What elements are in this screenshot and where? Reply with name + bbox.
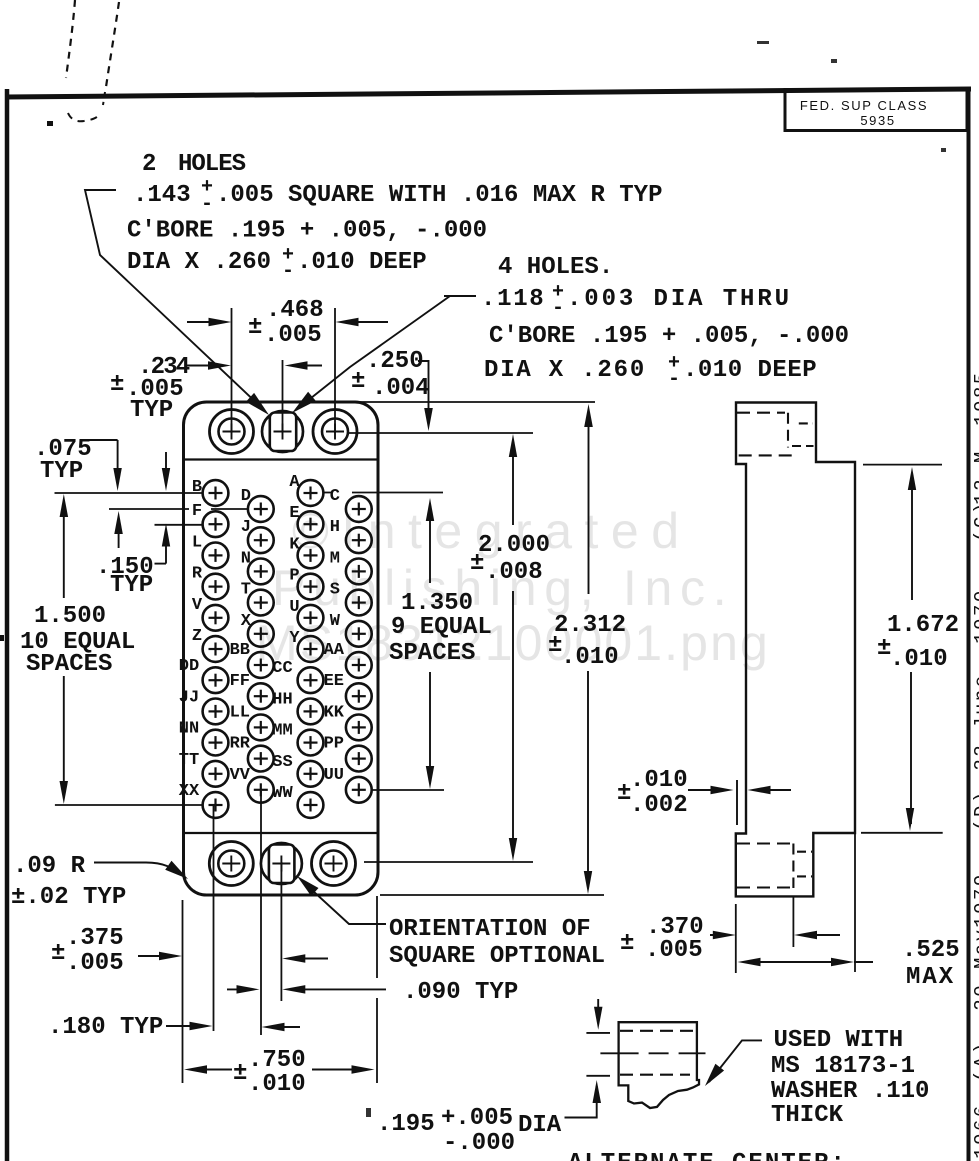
extension line row XX [55,804,203,806]
svg-text:SQUARE OPTIONAL: SQUARE OPTIONAL [389,943,605,970]
svg-text:.010: .010 [561,644,619,671]
svg-text:N: N [241,549,251,568]
svg-text:Y: Y [289,629,300,648]
front view top section line [184,458,378,460]
svg-text:.002: .002 [630,792,688,819]
svg-text:WASHER .110: WASHER .110 [771,1078,929,1105]
svg-text:CC: CC [272,659,292,678]
extension line from pin C row [352,492,443,494]
svg-text:DD: DD [179,657,199,676]
svg-text:+.005: +.005 [441,1105,513,1132]
svg-text:B: B [192,478,202,497]
top left mounting hole [210,410,254,454]
svg-text:TYP: TYP [40,458,83,485]
svg-text:.010 DEEP: .010 DEEP [683,357,817,384]
center line of jackscrew below side view [792,896,794,947]
svg-text:TYP: TYP [130,397,173,424]
svg-text:±.02 TYP: ±.02 TYP [11,884,126,911]
pin column 4 (C H M S W AA EE KK PP UU) [346,496,372,522]
extension line over left top hole [231,308,233,433]
bottom center square hole [261,843,302,884]
svg-text:R: R [192,565,203,584]
svg-text:±: ± [620,930,634,957]
svg-text:.375: .375 [66,925,124,952]
svg-text:(D): (D) [971,789,979,831]
svg-text:FED. SUP CLASS: FED. SUP CLASS [800,98,928,113]
detail view hidden lines [620,1030,696,1032]
svg-text:AA: AA [324,641,345,660]
svg-text:MS 18173-1: MS 18173-1 [771,1053,915,1080]
svg-text:X: X [241,612,252,631]
extension of side view right edge [854,833,856,972]
extension line row B [55,492,204,494]
bottom left mounting hole [209,842,253,886]
svg-text:±: ± [51,940,65,967]
svg-text:.468: .468 [266,297,324,324]
svg-text:W: W [330,612,341,631]
svg-text:12 M: 12 M [971,449,979,505]
svg-text:±: ± [233,1060,247,1087]
dimension 1.672 ±.010 [908,467,916,490]
svg-text:L: L [192,533,202,552]
svg-text:C: C [330,487,340,506]
svg-text:±: ± [470,550,484,577]
svg-text:.195: .195 [377,1111,435,1138]
dimension 1.350 9 EQUAL SPACES [426,498,434,521]
svg-text:TYP: TYP [110,572,153,599]
dimension 2.000 ±.008 [509,434,517,457]
dash between pin A and C label [324,492,331,494]
svg-text:2.000: 2.000 [478,532,550,559]
svg-text:HH: HH [272,690,292,709]
svg-text:M: M [330,549,340,568]
svg-text:±: ± [248,314,262,341]
dimension 1.500 10 EQUAL SPACES [60,494,69,517]
svg-text:.005 SQUARE WITH .016 MAX R T: .005 SQUARE WITH .016 MAX R TYP [216,182,662,209]
svg-text:ALTERNATE CENTER:: ALTERNATE CENTER: [568,1150,847,1161]
front view bottom section line [184,832,378,834]
detail view block outline [619,1022,699,1108]
scan artifact marks [66,0,75,78]
svg-text:ORIENTATION OF: ORIENTATION OF [389,916,591,943]
svg-text:SS: SS [272,753,292,772]
svg-text:Z: Z [192,627,202,646]
svg-text:1.350: 1.350 [401,590,473,617]
svg-text:1.672: 1.672 [887,612,959,639]
svg-text:.005: .005 [264,322,322,349]
svg-text:K: K [289,535,300,554]
svg-text:PP: PP [324,735,344,754]
svg-text:E: E [289,504,299,523]
svg-text:.010: .010 [630,767,688,794]
svg-text:VV: VV [230,766,251,785]
extension line row D [109,508,189,510]
svg-text:HOLES: HOLES [178,151,246,178]
svg-text:1.500: 1.500 [34,603,106,630]
svg-text:DIA X .260: DIA X .260 [484,357,646,384]
svg-text:C'BORE .195 + .005, -.000: C'BORE .195 + .005, -.000 [127,218,487,245]
FED SUP CLASS box [785,90,967,131]
svg-text:FF: FF [230,672,250,691]
svg-text:2.312: 2.312 [554,612,626,639]
svg-text:SPACES: SPACES [389,640,475,667]
extension line from pin UU row [371,789,444,791]
leader from 4 HOLES note to square hole [444,295,476,297]
svg-text:WW: WW [272,784,293,803]
bottom right mounting hole [312,842,356,886]
svg-text:1966: 1966 [971,1103,979,1159]
svg-text:MAX: MAX [906,964,955,991]
extension line over right top hole [334,308,336,433]
svg-text:THICK: THICK [771,1102,844,1129]
svg-text:JJ: JJ [179,688,199,707]
svg-text:1979: 1979 [971,872,979,928]
svg-text:.010: .010 [248,1071,306,1098]
extension lines below connector [182,900,184,1083]
svg-text:1965: 1965 [0,686,5,724]
svg-text:XX: XX [179,782,200,801]
svg-text:22 June: 22 June [971,673,979,770]
svg-text:-: - [668,368,680,391]
svg-text:EE: EE [324,672,344,691]
svg-text:(C): (C) [971,500,979,542]
side view hidden lines top block [737,412,785,414]
svg-text:DIA X .260: DIA X .260 [127,249,271,276]
svg-text:1985: 1985 [971,370,979,426]
svg-text:9 EQUAL: 9 EQUAL [391,614,492,641]
svg-text:UU: UU [324,766,344,785]
pin column 3 (A E K P U Y CC HH MM SS WW) [298,480,324,506]
svg-text:.250: .250 [366,348,424,375]
svg-text:D: D [241,487,251,506]
tick line for wall thickness dim [736,780,738,825]
svg-text:DIA: DIA [518,1112,562,1139]
svg-text:.118: .118 [481,286,545,313]
extension line side view bottom right [861,832,943,834]
svg-text:S: S [330,581,340,600]
extension line connector top edge right [358,401,595,403]
svg-text:.004: .004 [372,375,430,402]
svg-text:KK: KK [324,703,345,722]
svg-text:-: - [201,193,213,216]
side view outline [736,403,855,897]
svg-text:5935: 5935 [860,113,895,128]
dimension .750 ±.010 [184,1065,207,1074]
extension line bottom holes row right [364,861,533,863]
front view connector outline [184,402,379,895]
svg-text:.010: .010 [890,646,948,673]
svg-text:MM: MM [272,722,292,741]
svg-text:J: J [241,518,251,537]
detail view down arrow top [597,999,599,1022]
svg-text:4 HOLES.: 4 HOLES. [498,254,613,281]
svg-text:.008: .008 [485,559,543,586]
top right mounting hole [313,410,357,454]
svg-text:H: H [330,518,340,537]
svg-text:(A): (A) [971,1040,979,1082]
svg-text:BB: BB [230,641,250,660]
leader from 2 HOLES note to square hole [85,190,262,408]
extension line row F [155,524,204,526]
extension line side view left edge below [735,904,737,973]
pin column 2 (D J N T X BB FF LL RR VV) [248,496,274,522]
svg-text:C'BORE .195 + .005, -.000: C'BORE .195 + .005, -.000 [489,323,849,350]
svg-text:.143: .143 [133,182,191,209]
dimension .090 TYP [227,988,253,990]
svg-text:SPACES: SPACES [26,651,112,678]
svg-text:2: 2 [142,151,156,178]
pin column 1 (B F L R V Z DD JJ NN TT XX) [203,480,229,506]
svg-text:NN: NN [179,720,199,739]
svg-text:.003 DIA THRU: .003 DIA THRU [567,286,792,313]
svg-text:TT: TT [179,751,199,770]
svg-text:T: T [241,581,251,600]
svg-text:±: ± [110,371,124,398]
svg-text:.005: .005 [66,950,124,977]
svg-text:V: V [192,596,203,615]
dimension .525 MAX [738,958,761,966]
svg-text:.005: .005 [645,937,703,964]
watermark [256,503,770,671]
top center square hole [262,411,303,452]
extension line top holes row right [347,432,533,434]
svg-text:U: U [289,598,299,617]
extension line side view top right [863,464,942,466]
extension line over center top hole [282,360,284,431]
svg-text:20 May: 20 May [971,927,979,1010]
upper gap arrow at center column [282,954,305,963]
svg-text:-: - [552,297,564,320]
svg-text:F: F [192,502,202,521]
svg-text:.09 R: .09 R [13,853,86,880]
svg-text:-.000: -.000 [443,1130,515,1157]
svg-text:.750: .750 [248,1047,306,1074]
svg-text:A: A [289,473,300,492]
extension line connector bottom edge right [380,894,604,896]
svg-text:.525: .525 [902,937,960,964]
dimension 2.312 ±.010 [584,404,593,427]
page border [5,89,971,97]
svg-text:-: - [282,260,294,283]
svg-text:.090 TYP: .090 TYP [403,979,518,1006]
svg-text:LL: LL [230,703,250,722]
svg-text:1970: 1970 [971,588,979,644]
svg-text:.180 TYP: .180 TYP [48,1014,163,1041]
svg-text:±: ± [351,368,365,395]
detail view washer tick and up arrow [586,1075,610,1077]
svg-text:P: P [289,567,299,586]
svg-text:USED WITH: USED WITH [774,1027,904,1054]
svg-text:.010 DEEP: .010 DEEP [297,249,427,276]
svg-text:RR: RR [230,735,251,754]
side view hidden lines bottom block [737,842,795,844]
